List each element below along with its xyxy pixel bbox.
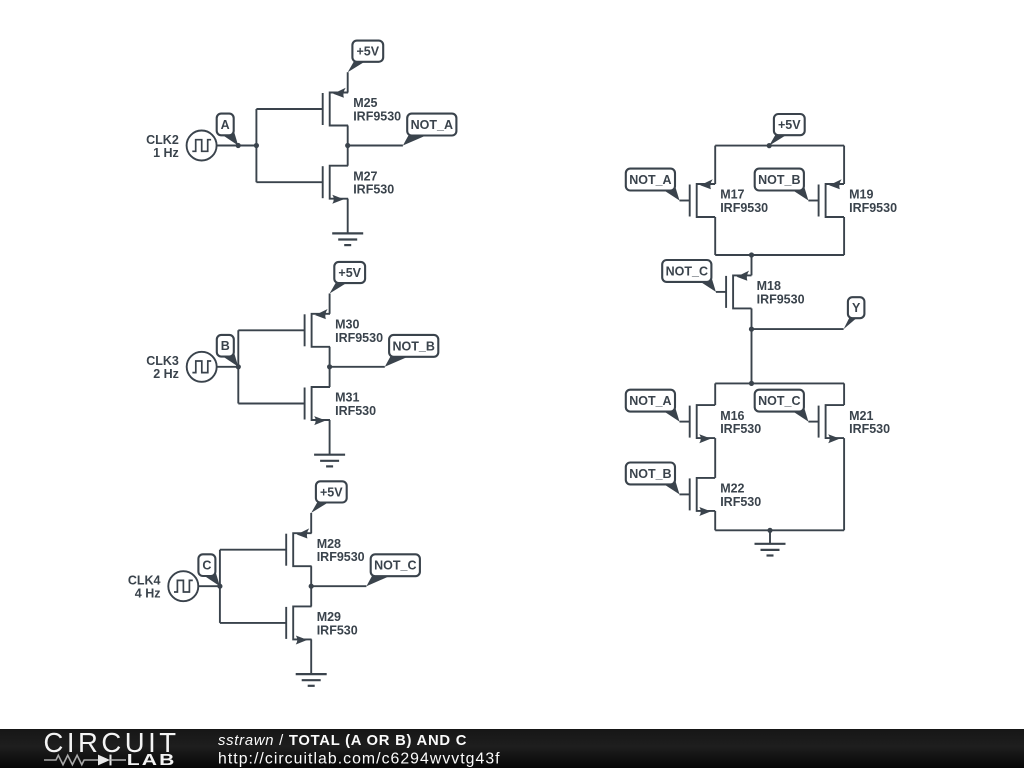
svg-text:M22: M22 [720, 482, 744, 496]
wire [752, 328, 844, 330]
voltage source CLK2 (square wave) [187, 131, 217, 161]
node NOT_B flag [626, 463, 680, 495]
wire [310, 513, 312, 533]
svg-text:M30: M30 [335, 318, 359, 332]
svg-text:IRF9530: IRF9530 [720, 201, 768, 215]
transistor M17 (PMOS IRF9530) [690, 179, 715, 217]
svg-text:http://circuitlab.com/c6294wvv: http://circuitlab.com/c6294wvvtg43f [218, 750, 501, 767]
svg-text:C: C [202, 559, 211, 573]
junction [236, 143, 241, 148]
svg-text:IRF9530: IRF9530 [849, 201, 897, 215]
junction [767, 528, 772, 533]
node Y flag [844, 297, 865, 329]
svg-text:IRF530: IRF530 [720, 422, 761, 436]
wire [808, 421, 818, 423]
svg-text:A: A [221, 118, 230, 132]
svg-text:NOT_B: NOT_B [393, 339, 435, 353]
+5V power flag [311, 481, 346, 513]
node NOT_A flag [626, 169, 680, 201]
wire [714, 438, 716, 478]
wire [347, 72, 349, 92]
wire [220, 622, 286, 624]
wire [237, 330, 239, 403]
wire [808, 200, 818, 202]
svg-text:NOT_B: NOT_B [629, 467, 671, 481]
+5V power flag [769, 114, 805, 146]
wire [751, 255, 753, 275]
junction [217, 584, 222, 589]
node NOT_C flag [755, 390, 809, 422]
voltage source CLK4 (square wave) [168, 571, 198, 601]
svg-text:IRF530: IRF530 [353, 183, 394, 197]
svg-text:+5V: +5V [778, 118, 801, 132]
junction [309, 584, 314, 589]
svg-text:NOT_B: NOT_B [758, 173, 800, 187]
voltage source CLK3 (square wave) [187, 352, 217, 382]
transistor M18 (PMOS IRF9530) [726, 271, 751, 309]
transistor M27 (NMOS IRF530) [323, 166, 348, 204]
wire [310, 639, 312, 674]
wire [220, 549, 286, 551]
junction [327, 364, 332, 369]
svg-text:2 Hz: 2 Hz [153, 367, 179, 381]
junction [749, 252, 754, 257]
wire [238, 329, 304, 331]
svg-text:M28: M28 [317, 537, 341, 551]
svg-text:+5V: +5V [338, 266, 361, 280]
junction [254, 143, 259, 148]
node NOT_A flag [403, 114, 457, 146]
transistor M16 (NMOS IRF530) [690, 405, 715, 443]
footer bar [0, 729, 1024, 768]
wire [256, 108, 322, 110]
wire [680, 200, 690, 202]
wire [715, 145, 844, 147]
wire [310, 566, 312, 606]
ground [755, 544, 786, 556]
wire [714, 146, 716, 184]
node C flag [198, 554, 220, 586]
svg-text:B: B [221, 339, 230, 353]
wire [347, 199, 349, 234]
wire [714, 383, 716, 405]
transistor M21 (NMOS IRF530) [819, 405, 844, 443]
svg-text:sstrawn / TOTAL (A OR B) AND C: sstrawn / TOTAL (A OR B) AND C [218, 733, 467, 749]
wire [843, 217, 845, 255]
svg-text:M18: M18 [757, 279, 781, 293]
svg-text:IRF530: IRF530 [849, 422, 890, 436]
wire [198, 585, 220, 587]
logo diode symbol [98, 755, 110, 766]
+5V power flag [348, 41, 383, 73]
svg-text:4 Hz: 4 Hz [135, 587, 161, 601]
wire [843, 146, 845, 184]
junction [749, 327, 754, 332]
ground [314, 455, 345, 467]
transistor M28 (PMOS IRF9530) [286, 528, 311, 566]
logo resistor symbol [44, 755, 98, 764]
junction [749, 381, 754, 386]
node B flag [217, 335, 239, 367]
ground [296, 674, 327, 686]
svg-text:M16: M16 [720, 409, 744, 423]
svg-text:1 Hz: 1 Hz [153, 146, 179, 160]
+5V power flag [330, 262, 365, 294]
wire [217, 366, 239, 368]
svg-text:IRF530: IRF530 [317, 623, 358, 637]
node NOT_C flag [366, 554, 420, 586]
svg-text:CLK3: CLK3 [146, 354, 179, 368]
node NOT_C flag [662, 260, 716, 292]
svg-text:NOT_C: NOT_C [666, 264, 708, 278]
svg-text:M17: M17 [720, 188, 744, 202]
svg-text:M31: M31 [335, 391, 359, 405]
node A flag [217, 114, 239, 146]
wire [715, 382, 844, 384]
svg-text:M27: M27 [353, 169, 377, 183]
svg-text:CLK4: CLK4 [128, 574, 161, 588]
svg-text:Y: Y [852, 301, 861, 315]
transistor M31 (NMOS IRF530) [305, 387, 330, 425]
svg-text:LAB: LAB [127, 750, 177, 768]
svg-text:IRF9530: IRF9530 [335, 331, 383, 345]
wire [217, 145, 257, 147]
svg-text:IRF530: IRF530 [335, 404, 376, 418]
wire [680, 421, 690, 423]
wire [348, 145, 403, 147]
wire [843, 383, 845, 405]
wire [329, 347, 331, 387]
node NOT_A flag [626, 390, 680, 422]
svg-text:NOT_A: NOT_A [411, 118, 453, 132]
wire [219, 550, 221, 623]
node NOT_B flag [385, 335, 439, 367]
wire [769, 530, 771, 544]
svg-text:IRF9530: IRF9530 [317, 550, 365, 564]
ground [332, 233, 363, 245]
svg-text:+5V: +5V [357, 45, 380, 59]
wire [680, 493, 690, 495]
svg-text:NOT_A: NOT_A [629, 394, 671, 408]
junction [345, 143, 350, 148]
svg-text:IRF530: IRF530 [720, 495, 761, 509]
svg-text:+5V: +5V [320, 485, 343, 499]
transistor M19 (PMOS IRF9530) [819, 179, 844, 217]
wire [843, 438, 845, 530]
wire [311, 585, 366, 587]
svg-text:M19: M19 [849, 188, 873, 202]
wire [329, 420, 331, 455]
svg-text:M29: M29 [317, 610, 341, 624]
junction [767, 143, 772, 148]
wire [716, 291, 726, 293]
wire [330, 366, 385, 368]
svg-text:IRF9530: IRF9530 [757, 292, 805, 306]
junction [236, 364, 241, 369]
wire [714, 511, 716, 530]
svg-text:IRF9530: IRF9530 [353, 110, 401, 124]
svg-text:NOT_C: NOT_C [374, 559, 416, 573]
svg-text:NOT_C: NOT_C [758, 394, 800, 408]
transistor M29 (NMOS IRF530) [286, 606, 311, 644]
wire [715, 529, 844, 531]
svg-text:NOT_A: NOT_A [629, 173, 671, 187]
node NOT_B flag [755, 169, 809, 201]
wire [329, 294, 331, 314]
wire [715, 254, 844, 256]
wire [238, 403, 304, 405]
transistor M22 (NMOS IRF530) [690, 478, 715, 516]
wire [347, 126, 349, 166]
svg-text:M25: M25 [353, 96, 377, 110]
wire [255, 109, 257, 182]
wire [751, 308, 753, 383]
transistor M25 (PMOS IRF9530) [323, 88, 348, 126]
svg-text:CLK2: CLK2 [146, 133, 179, 147]
wire [256, 181, 322, 183]
wire [714, 217, 716, 255]
svg-text:M21: M21 [849, 409, 873, 423]
transistor M30 (PMOS IRF9530) [305, 309, 330, 347]
